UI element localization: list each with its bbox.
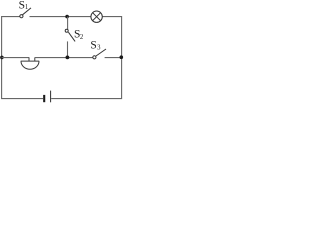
svg-text:1: 1 [25, 4, 28, 11]
switch S3 pivot circle [93, 56, 96, 59]
switch S2 pivot circle [65, 29, 68, 32]
node: junction mid (S2 branch bottom) [66, 56, 70, 60]
lamp L1 cross [93, 13, 101, 21]
bell B1 [21, 58, 40, 70]
wire: middle wire right segment [105, 57, 122, 59]
wire: bottom-left corner + left vertical + top-left corner loop [2, 17, 43, 99]
wire: middle wire left segment [2, 57, 30, 59]
battery BT1 positive plate (long thin) [50, 91, 52, 103]
lamp L1 circle [91, 11, 102, 22]
node: junction top (S2 branch) [65, 15, 69, 19]
svg-text:S: S [90, 40, 96, 52]
switch S1 blade [23, 8, 32, 15]
node: junction mid-right [120, 55, 124, 59]
svg-text:3: 3 [97, 44, 101, 51]
battery BT1 negative plate (short thick) [43, 95, 45, 102]
switch S1 pivot circle [20, 15, 23, 18]
wire: S2 branch upper vertical [67, 17, 69, 30]
switch S2 blade [68, 32, 75, 41]
wire: top-right corner + right vertical + bottom-right corner loop [51, 17, 121, 99]
node: junction mid-left [0, 56, 4, 60]
svg-text:2: 2 [80, 34, 84, 41]
wire: S2 branch lower vertical [67, 41, 69, 57]
wire: middle wire center segment [35, 57, 93, 59]
wire: top middle segment [30, 16, 92, 18]
switch S3 blade [96, 49, 106, 56]
